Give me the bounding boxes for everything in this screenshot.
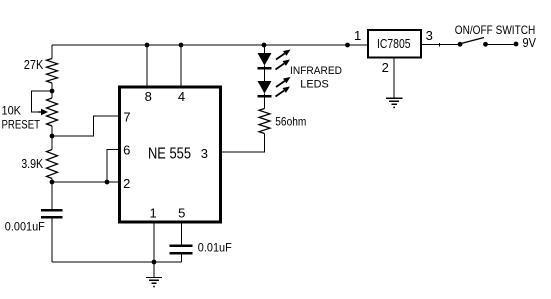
svg-text:3: 3 xyxy=(426,28,433,43)
svg-text:6: 6 xyxy=(123,143,130,158)
svg-text:2: 2 xyxy=(123,176,130,191)
svg-text:56ohm: 56ohm xyxy=(275,115,306,129)
svg-text:5: 5 xyxy=(178,206,185,221)
svg-text:10K: 10K xyxy=(2,104,22,118)
svg-text:9V: 9V xyxy=(523,36,537,50)
svg-text:ON/OFF SWITCH: ON/OFF SWITCH xyxy=(455,23,536,37)
svg-text:PRESET: PRESET xyxy=(2,120,41,132)
svg-text:NE 555: NE 555 xyxy=(148,146,191,163)
svg-text:INFRARED: INFRARED xyxy=(290,65,342,77)
svg-text:2: 2 xyxy=(382,60,389,75)
svg-text:3.9K: 3.9K xyxy=(21,157,44,171)
svg-text:4: 4 xyxy=(178,89,185,104)
svg-text:1: 1 xyxy=(149,206,156,221)
svg-text:0.01uF: 0.01uF xyxy=(198,241,232,255)
svg-text:8: 8 xyxy=(145,89,152,104)
svg-text:1: 1 xyxy=(354,28,361,43)
svg-text:IC7805: IC7805 xyxy=(377,36,411,51)
svg-text:7: 7 xyxy=(123,110,130,125)
svg-text:0.001uF: 0.001uF xyxy=(5,219,45,233)
svg-text:LEDS: LEDS xyxy=(300,78,329,90)
svg-text:27K: 27K xyxy=(24,58,44,72)
svg-text:3: 3 xyxy=(201,146,208,161)
